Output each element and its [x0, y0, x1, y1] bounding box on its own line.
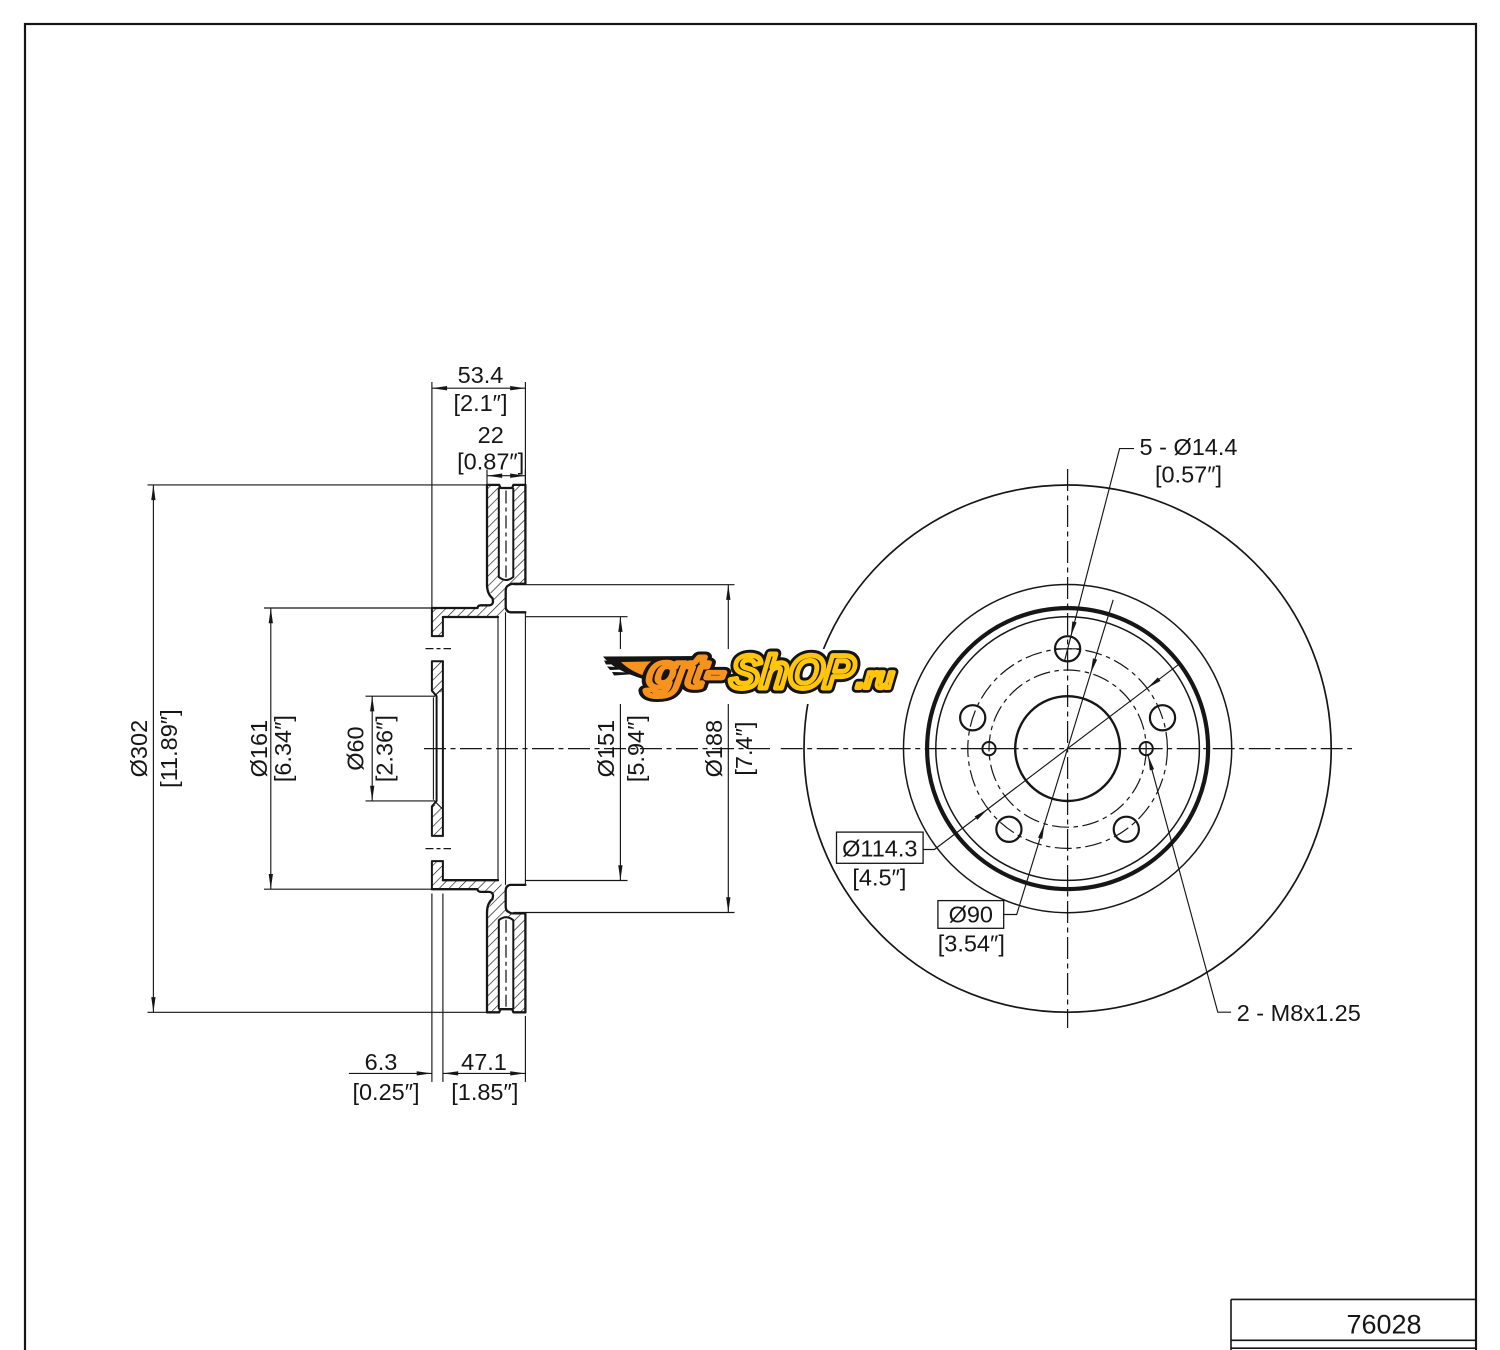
svg-text:[7.4″]: [7.4″] — [731, 722, 757, 776]
leader 5-D14.4 — [1064, 449, 1134, 662]
main horizontal centerline — [781, 748, 1352, 750]
logo wing black base — [603, 656, 702, 682]
vent slot walls top — [499, 489, 514, 580]
svg-text:2 - M8x1.25: 2 - M8x1.25 — [1237, 1000, 1361, 1026]
svg-text:[6.34″]: [6.34″] — [270, 715, 296, 782]
outer circle D302 — [804, 485, 1331, 1012]
hatched section fill: top friction ring + neck + hat top plate — [443, 485, 526, 617]
svg-text:Ø60: Ø60 — [343, 726, 369, 770]
dim 188 extension lines — [514, 585, 735, 913]
M8 hole right tick — [1136, 748, 1157, 750]
svg-text:[2.1″]: [2.1″] — [453, 390, 507, 416]
logo text gt- black outline layer — [644, 645, 897, 698]
bolt hole upper-left — [960, 705, 985, 730]
svg-text:[11.89″]: [11.89″] — [156, 709, 182, 787]
svg-text:.ru: .ru — [855, 662, 895, 695]
svg-text:Ø302: Ø302 — [126, 720, 152, 778]
svg-text:[4.5″]: [4.5″] — [852, 865, 906, 891]
dim 6.3 / 47.1 extension lines — [432, 894, 526, 1082]
dim 53.4 extension lines — [432, 382, 526, 608]
leader D90 — [1004, 600, 1113, 915]
dim 22 dimension line — [487, 475, 525, 477]
main vertical centerline — [1067, 469, 1069, 1028]
svg-text:6.3: 6.3 — [365, 1049, 398, 1075]
leader D114.3 — [923, 665, 1178, 850]
svg-text:[1.85″]: [1.85″] — [451, 1079, 518, 1105]
hat top plate bottom face — [443, 616, 498, 618]
bolt hole axis bottom (section) — [426, 848, 452, 850]
M8 hole right — [1140, 742, 1153, 755]
silhouette lines between hat plates — [498, 612, 525, 885]
svg-text:22: 22 — [478, 422, 504, 448]
svg-text:[3.54″]: [3.54″] — [938, 931, 1005, 957]
outboard plate left face + S-fillet + hat top face — [432, 485, 493, 608]
main centerline (horizontal axis of section) — [424, 748, 772, 750]
dim 302 dimension line — [152, 485, 154, 1012]
inboard plate right face top — [524, 485, 526, 584]
logo wing orange overlay — [621, 661, 695, 679]
bolt hole axis top (section) — [426, 648, 452, 650]
outboard plate left face bottom + S-fillet + hat bottom face — [432, 889, 493, 1012]
dim 60 extension lines — [366, 696, 435, 801]
circle D90 (dash-dot) — [989, 670, 1146, 827]
dim 302 extension lines — [148, 485, 488, 1012]
bolt hole lower-left — [996, 817, 1021, 842]
hatched section fill: bottom friction ring + neck + hat bottom plate — [443, 880, 526, 1012]
dim 161 dimension line — [270, 608, 272, 889]
logo wing spike 2 — [607, 667, 650, 671]
svg-text:Ø161: Ø161 — [246, 720, 272, 778]
svg-text:Ø188: Ø188 — [701, 720, 727, 778]
label box D114.3 — [837, 832, 924, 863]
section profile: outer disc OD edge bottom — [487, 1009, 525, 1012]
svg-text:Ø90: Ø90 — [949, 902, 993, 928]
svg-text:ShOP: ShOP — [728, 645, 858, 698]
title block — [1231, 1299, 1476, 1350]
bore chamfer visible edges (thin) — [433, 612, 525, 885]
logo white background — [599, 649, 897, 704]
M8 hole left — [982, 742, 995, 755]
leader 2-M8x1.25 — [1148, 755, 1231, 1012]
svg-text:Ø114.3: Ø114.3 — [842, 836, 917, 862]
bolt hole top — [1055, 636, 1080, 661]
dim 47.1 dimension line — [443, 1072, 525, 1074]
svg-text:[0.87″]: [0.87″] — [457, 449, 524, 475]
svg-text:53.4: 53.4 — [458, 362, 504, 388]
vent slot centerline top — [505, 491, 507, 578]
dim 22 extension lines — [487, 470, 525, 485]
dim 6.3 leader line with arrow — [349, 1072, 432, 1074]
svg-text:[0.57″]: [0.57″] — [1155, 462, 1222, 488]
dim 151 extension lines — [525, 617, 627, 881]
hat wall faces and bolt hole / bore edges — [432, 608, 443, 889]
bolt hole top tick — [1054, 648, 1080, 650]
hat outer circle D161 (bold) — [927, 608, 1208, 889]
dim 53.4 dimension line — [432, 387, 526, 389]
inboard plate top edge + groove + neck right + step (bottom) — [506, 885, 526, 914]
M8 hole left tick — [979, 748, 1000, 750]
inboard plate right face bottom — [524, 913, 526, 1012]
bolt circle D114.3 (dash-dot) — [968, 649, 1168, 849]
dim 188 dimension line — [727, 585, 729, 913]
logo wing spike 1 — [604, 661, 648, 665]
svg-text:Ø151: Ø151 — [593, 720, 619, 778]
logo wing spike 3 — [612, 672, 652, 676]
bolt hole lower-right — [1114, 817, 1139, 842]
svg-text:47.1: 47.1 — [461, 1049, 507, 1075]
friction inner circle D188 — [904, 585, 1232, 913]
vent slot walls bottom — [499, 917, 514, 1008]
bolt hole upper-right — [1150, 705, 1175, 730]
svg-text:[5.94″]: [5.94″] — [623, 715, 649, 782]
center bore D60 — [1015, 696, 1120, 801]
svg-text:5 - Ø14.4: 5 - Ø14.4 — [1140, 434, 1238, 460]
section profile: outer disc OD edge top — [432, 485, 526, 1012]
hat bottom plate top face — [443, 879, 498, 881]
dim 161 extension lines — [264, 608, 432, 889]
vent slot centerline bottom — [505, 920, 507, 1007]
svg-text:76028: 76028 — [1346, 1310, 1421, 1340]
circle D151 — [936, 617, 1200, 881]
svg-text:[0.25″]: [0.25″] — [352, 1079, 419, 1105]
svg-text:gt-: gt- — [644, 645, 729, 697]
svg-text:[2.36″]: [2.36″] — [372, 715, 398, 782]
label box D90 — [938, 901, 1004, 929]
dim 151 dimension line — [619, 617, 621, 881]
inboard plate bottom edge + groove + neck right + step — [506, 584, 526, 613]
hatched section fill: hat wall segments — [432, 608, 443, 636]
dim 60 dimension line — [371, 696, 373, 801]
